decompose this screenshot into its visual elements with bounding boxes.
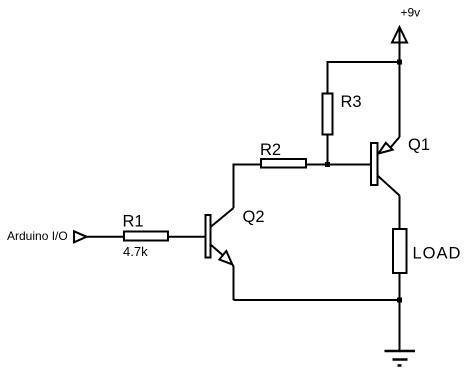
resistor R1: [123, 213, 169, 260]
power symbol +9v: [392, 6, 420, 63]
resistor R2: [260, 141, 306, 168]
wire: ground stem: [399, 300, 401, 351]
wire: base rail from Q2 collector corner to Q1 base: [234, 164, 372, 166]
node: junction R3/R2/Q1 base: [325, 162, 330, 167]
resistor LOAD: [393, 229, 461, 273]
wire: Q2 emitter down to ground rail: [232, 264, 233, 300]
node: junction at LOAD bottom / ground: [397, 298, 402, 303]
svg-text:4.7k: 4.7k: [123, 244, 148, 259]
wire: Q1 collector diagonal: [378, 176, 400, 196]
wire: Q2 emitter diagonal: [211, 245, 223, 256]
wire: R3 top lead: [327, 61, 329, 94]
wire: Q2 collector vertical: [233, 164, 235, 209]
input port triangle Arduino I/O: [7, 229, 87, 243]
wire: Q2 collector diagonal: [211, 208, 234, 227]
svg-text:R1: R1: [123, 213, 144, 231]
wire: Q1 emitter diagonal from +9v rail: [391, 137, 400, 148]
svg-text:+9v: +9v: [401, 6, 421, 20]
wire: top horizontal from R3 to +9v rail: [328, 61, 400, 63]
transistor Q1: [371, 136, 430, 185]
svg-text:Q1: Q1: [408, 136, 430, 154]
Q2 emitter arrowhead: [219, 251, 232, 264]
wire: Q1 collector down to LOAD: [399, 196, 401, 231]
svg-text:Arduino I/O: Arduino I/O: [7, 229, 68, 243]
wire: R1 to Q2 base: [168, 236, 206, 238]
node: junction at +9v rail: [397, 60, 402, 65]
Q1 emitter arrowhead: [379, 143, 393, 154]
wire: input from Arduino to R1: [86, 236, 125, 238]
svg-text:Q2: Q2: [243, 208, 265, 226]
transistor Q2: [206, 208, 265, 258]
wire: R3 bottom lead: [327, 135, 329, 165]
wire: ground rail horizontal: [234, 299, 400, 301]
svg-text:R2: R2: [260, 141, 281, 159]
svg-text:R3: R3: [341, 93, 362, 111]
wire: LOAD bottom lead: [399, 273, 401, 300]
ground: [385, 351, 416, 366]
svg-text:LOAD: LOAD: [413, 245, 462, 263]
wire: +9v rail down to Q1 emitter: [399, 62, 401, 137]
resistor R3: [323, 93, 362, 135]
